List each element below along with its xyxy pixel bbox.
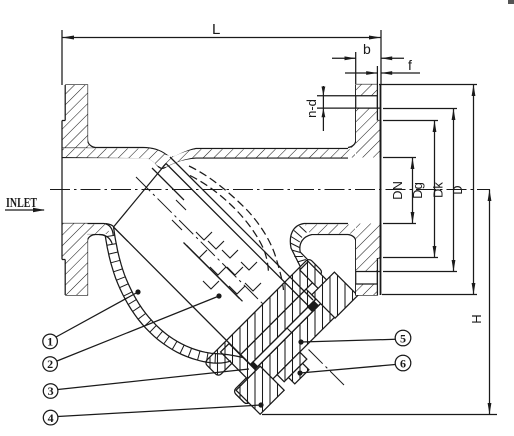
right flange <box>348 85 381 296</box>
lower nut <box>236 366 284 414</box>
gasket lines <box>245 299 316 370</box>
svg-text:2: 2 <box>47 357 53 371</box>
screen seam double line <box>184 243 240 299</box>
pipe top wall <box>62 148 355 169</box>
extension lines D <box>379 84 477 86</box>
extension line H bottom <box>262 414 497 416</box>
balloon 4 <box>43 402 263 425</box>
balloon 6 <box>297 355 410 375</box>
drain boss <box>277 352 307 382</box>
screen end face <box>114 164 167 228</box>
gasket black blocks <box>307 300 319 312</box>
balloon 3 <box>43 369 249 398</box>
upper bolt stud <box>300 262 328 290</box>
extension line left flange face <box>61 30 63 85</box>
svg-text:Dg: Dg <box>410 182 425 199</box>
cover plate <box>233 287 351 405</box>
left flange <box>62 85 95 295</box>
pipe bottom wall left <box>62 142 113 245</box>
svg-text:f: f <box>408 57 412 73</box>
neck inner short line at saddle <box>152 168 184 200</box>
svg-text:H: H <box>469 314 484 323</box>
dimension H <box>488 190 492 415</box>
hidden dome dashed outer arc <box>189 166 284 290</box>
mesh V marks on screen <box>172 200 261 294</box>
balloon 1 <box>43 289 141 348</box>
dimension Dg <box>433 121 437 258</box>
svg-text:6: 6 <box>400 356 406 370</box>
dimension Dk <box>452 109 456 272</box>
ladder hatch on sphere wall <box>105 235 215 363</box>
svg-text:3: 3 <box>48 384 54 398</box>
hidden dome dashed inner arc <box>190 176 269 274</box>
extension lines DN <box>383 157 416 159</box>
extension lines Dg <box>383 120 438 122</box>
corner artifact top right <box>508 0 514 4</box>
screen lower side line <box>114 227 251 365</box>
svg-text:1: 1 <box>47 335 53 349</box>
dimension L <box>62 36 381 40</box>
extension line f left <box>376 66 378 84</box>
extension line right flange face up <box>380 30 382 84</box>
svg-text:n-d: n-d <box>304 99 319 118</box>
dimension f <box>345 71 420 75</box>
screen upper side line <box>170 157 313 300</box>
body sphere outer wall arc <box>99 235 231 364</box>
balloon 5 <box>298 330 410 346</box>
balloon 2 <box>43 293 222 371</box>
body sphere inner wall arc <box>106 224 244 358</box>
dimension D <box>472 85 476 295</box>
dimension n-d <box>317 86 356 131</box>
screen upper inner line <box>166 164 309 307</box>
extension lines Dk <box>383 108 457 110</box>
cap assembly rotated 45deg <box>204 252 370 418</box>
svg-text:D: D <box>450 185 465 194</box>
body neck flange <box>204 258 323 377</box>
dimension b <box>332 56 404 60</box>
extension line b left <box>355 52 357 84</box>
svg-text:L: L <box>212 21 220 38</box>
ladder hatch on right neck wall <box>290 226 306 262</box>
dimension DN <box>411 158 415 224</box>
svg-text:INLET: INLET <box>6 196 37 211</box>
upper nut <box>312 272 358 318</box>
wire: horizontal pipe centerline <box>50 189 490 191</box>
lower bolt stud <box>221 344 256 379</box>
svg-text:Dk: Dk <box>431 182 446 198</box>
INLET arrow <box>5 208 45 212</box>
pipe bottom wall right <box>290 142 355 268</box>
wire: diagonal branch centerline <box>136 177 344 385</box>
svg-text:DN: DN <box>390 181 405 200</box>
svg-text:5: 5 <box>400 331 406 345</box>
svg-text:4: 4 <box>48 411 54 425</box>
svg-text:b: b <box>363 41 371 57</box>
